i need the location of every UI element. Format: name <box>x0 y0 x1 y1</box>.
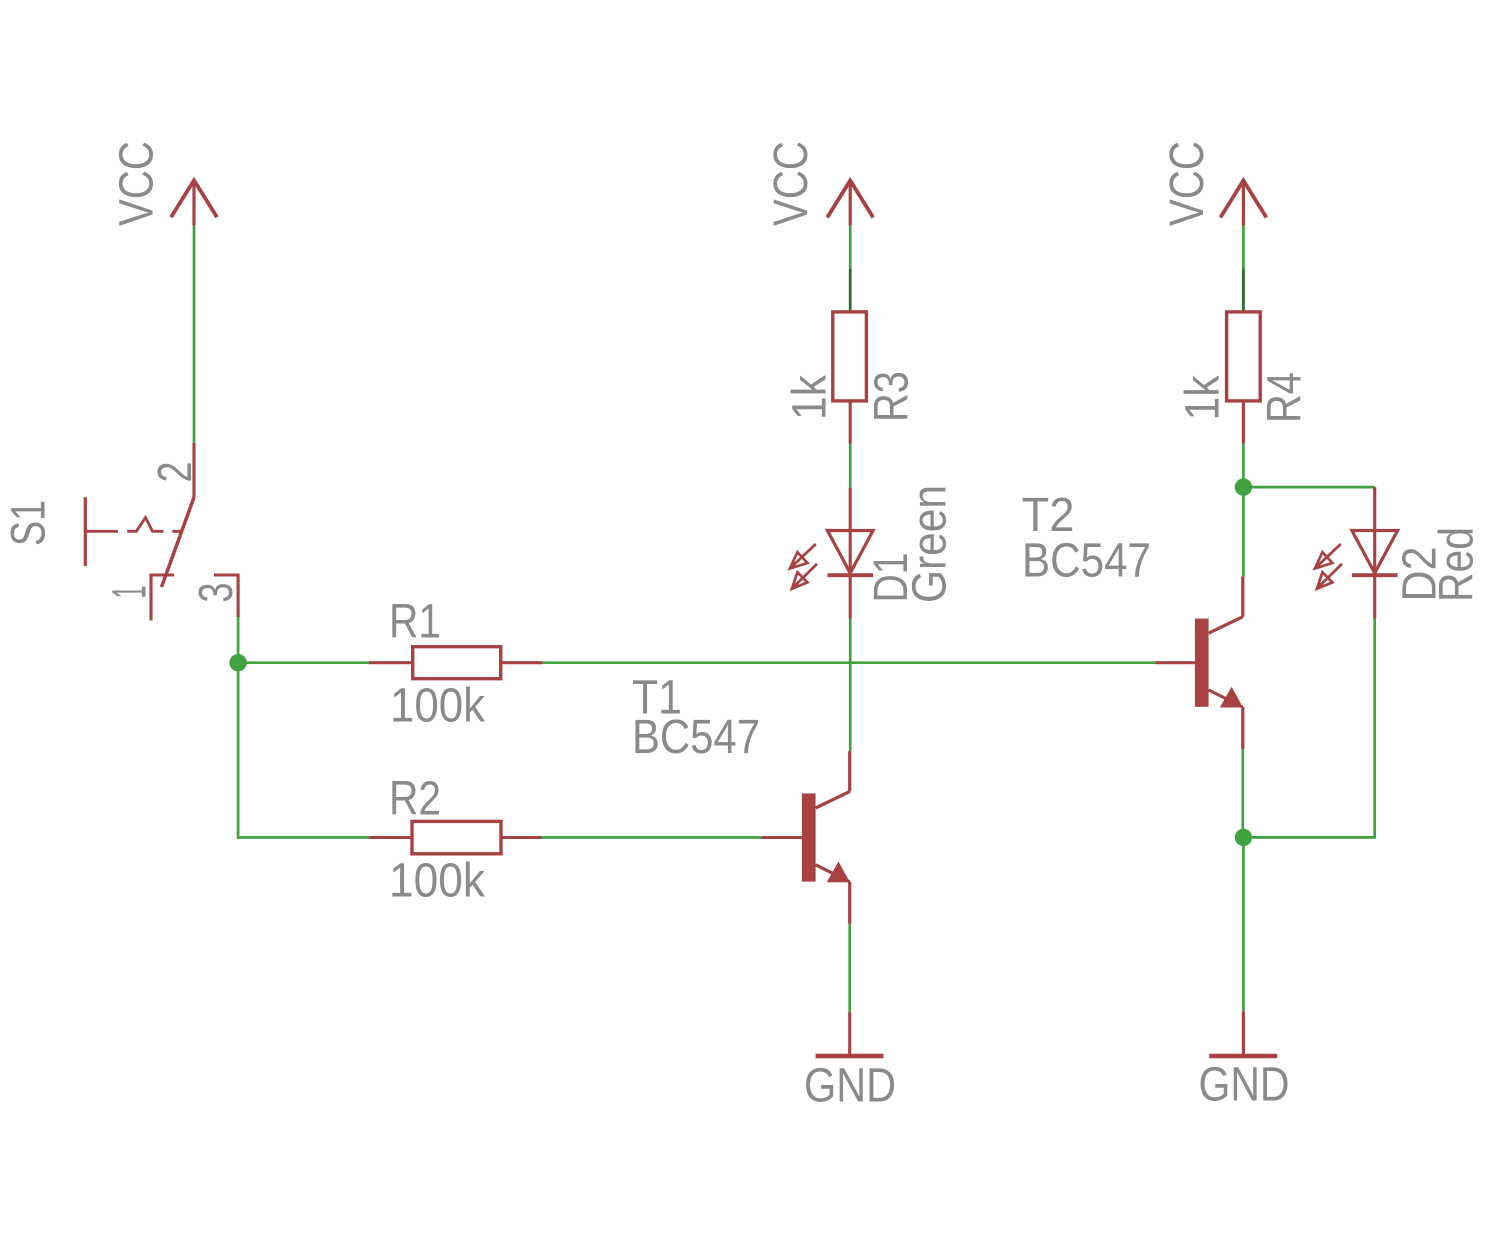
wire VCC to S1 pin 2 <box>193 226 196 443</box>
label S1 <box>3 500 56 546</box>
wire T2 emitter to node C <box>1241 749 1244 837</box>
transistor T2 <box>1156 576 1244 749</box>
label D1 <box>865 553 918 603</box>
wire R4 to node B <box>1242 444 1245 488</box>
value 1k (R4) <box>1177 375 1230 421</box>
wire node B to D2 branch <box>1243 486 1374 489</box>
svg-text:100k: 100k <box>389 855 486 908</box>
svg-text:R4: R4 <box>1259 372 1312 423</box>
wire node B down to T2 collector <box>1242 487 1245 576</box>
wire VCC to R4 <box>1242 226 1245 269</box>
wire T1 emitter to GND <box>848 924 851 1012</box>
transistor T1 <box>762 751 850 924</box>
wire D1 to T1 collector <box>849 619 852 751</box>
resistor R4 <box>1227 312 1261 444</box>
wire overlap on R4 pin <box>1242 269 1245 312</box>
svg-text:BC547: BC547 <box>632 711 760 764</box>
wire overlap on R3 pin <box>849 269 852 312</box>
ground GND (left) <box>816 1012 884 1056</box>
label VCC (middle supply) <box>765 141 818 226</box>
label R4 <box>1259 372 1312 423</box>
svg-text:2: 2 <box>149 462 202 483</box>
value 100k (R1) <box>390 680 486 733</box>
svg-text:1k: 1k <box>1177 375 1230 421</box>
wire node A to R1 <box>238 661 369 664</box>
svg-text:VCC: VCC <box>765 141 818 226</box>
label R2 <box>389 773 441 826</box>
supply symbol VCC (right) <box>1220 181 1266 226</box>
value 100k (R2) <box>389 855 486 908</box>
switch S1 <box>85 443 238 621</box>
supply symbol VCC (middle) <box>827 181 873 226</box>
svg-text:S1: S1 <box>3 500 56 546</box>
supply symbol VCC (left) <box>171 180 217 225</box>
svg-text:Red: Red <box>1431 527 1484 602</box>
pin number 1 <box>104 586 157 599</box>
svg-text:3: 3 <box>190 583 243 603</box>
svg-text:GND: GND <box>1199 1059 1290 1112</box>
svg-text:VCC: VCC <box>1161 141 1214 226</box>
ground GND (right) <box>1209 1011 1277 1056</box>
resistor R1 <box>369 647 543 679</box>
svg-text:Green: Green <box>904 485 957 603</box>
resistor R2 <box>369 821 542 853</box>
svg-text:1k: 1k <box>784 374 837 420</box>
label T2 <box>1022 489 1075 542</box>
LED D1 <box>790 488 873 619</box>
svg-text:1: 1 <box>104 586 157 599</box>
wire R2 to T1 base <box>542 836 762 839</box>
wire node A down and to R2 <box>238 663 369 838</box>
svg-text:R2: R2 <box>389 773 441 826</box>
label R3 <box>866 371 919 422</box>
value Red (D2) <box>1431 527 1484 602</box>
label VCC (right supply) <box>1161 141 1214 226</box>
node A junction dot <box>229 654 246 671</box>
label D2 <box>1394 547 1447 602</box>
label R1 <box>389 596 441 649</box>
pin number 3 <box>190 583 243 603</box>
value BC547 (T2) <box>1022 535 1151 588</box>
value 1k (R3) <box>784 374 837 420</box>
value BC547 (T1) <box>632 711 760 764</box>
svg-text:100k: 100k <box>390 680 486 733</box>
wire node C to GND <box>1242 837 1245 1011</box>
label GND (right) <box>1199 1059 1290 1112</box>
svg-text:R3: R3 <box>866 371 919 422</box>
svg-text:GND: GND <box>804 1060 896 1113</box>
label VCC (left supply) <box>111 141 164 226</box>
label T1 <box>632 672 682 725</box>
wire D2 down and left to node C <box>1243 619 1374 838</box>
pin number 2 <box>149 462 202 483</box>
svg-text:VCC: VCC <box>111 141 164 226</box>
wire R1 to T2 base <box>543 661 1156 664</box>
node B junction dot <box>1235 478 1252 495</box>
wire S1 pin3 down to node A <box>237 617 240 663</box>
wire R3 to D1 <box>849 444 852 488</box>
node C junction dot <box>1235 829 1252 846</box>
resistor R3 <box>833 312 867 444</box>
label GND (left) <box>804 1060 896 1113</box>
LED D2 <box>1315 487 1398 618</box>
svg-text:R1: R1 <box>389 596 441 649</box>
wire VCC to R3 <box>849 226 852 269</box>
svg-text:BC547: BC547 <box>1022 535 1151 588</box>
value Green (D1) <box>904 485 957 603</box>
